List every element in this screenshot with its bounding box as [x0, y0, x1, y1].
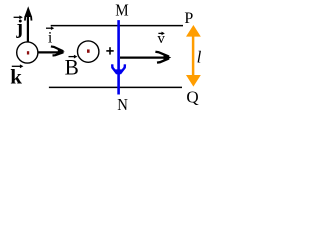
wire bottom rail QN	[49, 86, 182, 88]
red dot of origin circle	[27, 51, 29, 54]
axis origin circle (k out of page)	[17, 42, 38, 63]
svg-text:k: k	[10, 65, 22, 89]
i axis arrow (right)	[38, 51, 59, 53]
svg-text:Q: Q	[186, 87, 198, 106]
red dot of B circle	[87, 49, 90, 52]
svg-text:P: P	[184, 10, 193, 27]
svg-text:l: l	[197, 48, 202, 67]
j axis arrow (up)	[27, 12, 29, 42]
svg-text:j: j	[15, 17, 23, 39]
plus sign at rod	[106, 50, 113, 52]
wire top rail PM	[51, 25, 183, 27]
conducting rod MN (blue)	[117, 20, 120, 94]
svg-text:B: B	[65, 54, 79, 79]
svg-text:M: M	[115, 1, 128, 20]
svg-text:i: i	[48, 30, 53, 47]
svg-text:N: N	[117, 95, 128, 114]
current arrow on rod (blue, down)	[112, 64, 125, 74]
length arrow l (orange double-headed)	[192, 34, 195, 77]
velocity arrow v (right)	[120, 56, 166, 58]
magnetic field circle B (out of page)	[78, 41, 99, 62]
